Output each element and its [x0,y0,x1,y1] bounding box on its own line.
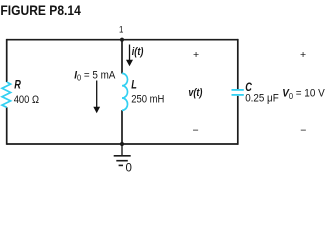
value 0.25 uF [245,92,279,105]
label R [14,80,21,92]
label L [131,80,137,92]
wire: left below resistor [6,107,8,145]
wire: right above capacitor [237,39,239,89]
svg-text:I0 = 5 mA: I0 = 5 mA [74,69,116,83]
svg-text:i(t): i(t) [132,46,144,58]
wire: left above resistor [6,39,8,82]
node 1 junction dot [120,38,124,42]
ground junction dot [120,142,124,146]
node 1 label [119,24,124,35]
inductor L [122,73,128,110]
svg-text:L: L [131,80,137,92]
label v(t) [188,87,203,99]
wire: right below capacitor [237,96,239,145]
label I0 = 5 mA [74,69,116,83]
label i(t) [132,46,144,58]
resistor R [2,82,11,107]
wire: middle branch above inductor [121,40,123,74]
svg-text:FIGURE P8.14: FIGURE P8.14 [0,3,81,18]
label V0 = 10 V [282,87,325,101]
label C [245,82,252,94]
svg-text:+: + [300,49,306,61]
arrow i(t) [129,45,131,61]
wire: top [7,39,238,41]
svg-text:400 Ω: 400 Ω [14,94,39,106]
value 250 mH [131,94,164,106]
svg-text:0: 0 [126,163,132,175]
svg-text:R: R [14,80,21,92]
svg-text:−: − [300,125,306,137]
svg-text:250 mH: 250 mH [131,94,164,106]
value 400 ohm [14,94,39,106]
svg-text:0.25 μF: 0.25 μF [245,92,279,105]
figure caption FIGURE P8.14 [0,3,81,18]
capacitor C [232,89,244,91]
svg-text:−: − [193,125,199,137]
arrow I0 [96,81,98,108]
svg-text:v(t): v(t) [188,87,203,99]
svg-text:1: 1 [119,24,124,35]
svg-text:V0 = 10 V: V0 = 10 V [282,87,325,101]
wire: bottom [7,143,238,145]
svg-text:+: + [193,49,199,61]
node 0 label [126,163,132,175]
wire: middle branch below inductor [121,110,123,144]
ground [114,144,131,165]
